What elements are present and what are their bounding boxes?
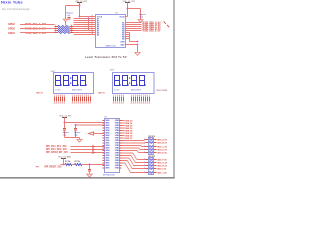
pin U2 right 6 [120, 132, 122, 134]
wire U2 to RN row 5 [122, 150, 138, 152]
svg-text:1 2 3 3: 1 2 3 3 [55, 89, 60, 91]
global label glyph RPI_I2C1_SCL_3V3 [92, 145, 94, 147]
junction rail b [75, 124, 77, 126]
svg-text:7: 7 [92, 25, 93, 27]
pin U2 left 11 [103, 145, 105, 147]
svg-text:2: 2 [92, 15, 93, 17]
power arrow reset [87, 174, 92, 177]
net label U2 right 1 [122, 120, 124, 122]
svg-text:R? 10k: R? 10k [65, 161, 70, 163]
wire U2 to RN row 6 [122, 152, 133, 154]
wire reset left [61, 164, 66, 166]
wire VDD_5V into U1 [126, 16, 128, 18]
power flag arrow VDD_3V3 [63, 19, 67, 22]
wire vertical junction x88 [88, 19, 90, 31]
net marker right 2 [167, 25, 169, 28]
wire U2 to RN row 9 [122, 160, 128, 162]
svg-text:R? 10k: R? 10k [75, 161, 80, 163]
pin U2 right 12 [120, 147, 122, 149]
wire U2 to RN row 10 [122, 162, 125, 164]
wire R2 to U2 [82, 164, 105, 166]
svg-text:6: 6 [92, 23, 93, 25]
svg-text:GND: GND [120, 44, 125, 46]
wire RPI_I2C1_SDA_3V3 [71, 149, 105, 151]
svg-text:SEG_H_5V: SEG_H_5V [157, 165, 167, 167]
wire branch down [65, 6, 67, 19]
wire to gnd arrow [79, 138, 81, 140]
svg-text:Nixie Tube: Nixie Tube [1, 0, 23, 5]
resistor RN1 element 2 [55, 28, 58, 30]
pin U2 left 12 [103, 147, 105, 149]
wire VDD down [64, 118, 66, 123]
wire label row 3 [20, 32, 55, 34]
wire U2 to RN row 3 [122, 145, 141, 147]
pin U2 right 1 [120, 120, 122, 122]
pin U2 left 1 [103, 120, 105, 122]
wire caps join [65, 137, 80, 139]
svg-text:RPI_I2C1_SDA_3V3: RPI_I2C1_SDA_3V3 [46, 148, 67, 151]
wire U1 out 2 [126, 24, 142, 26]
net label U2 right 7 [122, 135, 124, 137]
capacitor C1 plates [68, 17, 71, 19]
pin U2 right 4 [120, 127, 122, 129]
wire U1 out 1 [126, 22, 142, 24]
power flag arrow top right [138, 20, 143, 23]
resistor RN3 element 2 [146, 142, 150, 144]
digit 1 DS2 [115, 76, 120, 86]
pin U2 right 15 [120, 155, 122, 157]
resistor RN1 element 3 [55, 30, 58, 32]
net label U2 right 4 [122, 127, 124, 129]
wire bus horizontal a [130, 41, 138, 43]
wire U2 to RN row 4 [122, 147, 139, 149]
svg-text:9: 9 [92, 29, 93, 31]
resistor RN4 element 3 [146, 165, 150, 167]
svg-text:GPIO2: GPIO2 [8, 23, 15, 26]
pin U2 right 17 [120, 160, 122, 162]
sheet frame right [173, 0, 174, 178]
pin U2 left 7 [103, 135, 105, 137]
wire U2 to RN row 7 [122, 155, 132, 157]
wire input row [94, 133, 105, 135]
pin U2 right 19 [120, 165, 122, 167]
junction node x88 [88, 18, 90, 20]
wire bundle row 4 [74, 22, 96, 24]
svg-text:VDD_5V: VDD_5V [98, 93, 106, 95]
digit 2 DS2 [123, 76, 128, 86]
pin U2 right 10 [120, 142, 122, 144]
resistor RN4 element 5 [146, 172, 150, 174]
display DS1 box [54, 73, 94, 94]
pin U2 left 6 [103, 132, 105, 134]
svg-text:GND: GND [120, 41, 125, 43]
pin U2 left 8 [103, 137, 105, 139]
capacitor C3 [75, 125, 77, 128]
wire U2 to RN row 1 [122, 140, 144, 142]
input arrow glyph [89, 132, 94, 135]
svg-text:VCCB: VCCB [119, 16, 125, 18]
wire U1 out 5 [126, 30, 142, 32]
svg-text:VDD_5V: VDD_5V [36, 93, 44, 95]
sheet frame bottom [0, 177, 175, 178]
wire bundle row 2 [74, 18, 96, 20]
resistor RN3 element 3 [146, 146, 150, 148]
wire bundle row 9 [74, 32, 96, 34]
power flag arrow mid [135, 52, 140, 55]
wire bundle to U1 [80, 16, 96, 18]
net label U2 right 5 [122, 130, 124, 132]
colon DS1 [70, 78, 71, 79]
capacitor C2 [64, 123, 66, 129]
pin U2 left 14 [103, 152, 105, 154]
wire VDD_5V down [127, 3, 129, 17]
wire bundle row 3 [74, 20, 96, 22]
svg-text:RPI_GPIO4_INT_3V3: RPI_GPIO4_INT_3V3 [46, 151, 68, 154]
net marker right 1 [164, 21, 166, 24]
pin U2 right 7 [120, 135, 122, 137]
pin U2 left 18 [103, 162, 105, 164]
svg-text:8: 8 [92, 27, 93, 29]
pin U2 right 8 [120, 137, 122, 139]
resistor RN3 element 4 [146, 149, 150, 151]
svg-text:SEG_A_5V: SEG_A_5V [157, 138, 167, 141]
svg-text:SEG_G_5V: SEG_G_5V [157, 162, 168, 164]
pin U2 right 9 [120, 140, 122, 142]
pin U2 left 9 [103, 140, 105, 142]
svg-text:GPA3: GPA3 [105, 167, 109, 170]
wire RPI_GPIO4_INT_3V3 [71, 152, 105, 154]
colon DS2 [129, 78, 130, 79]
pin U2 right 20 [120, 167, 122, 169]
wire VDD_BBB down [63, 159, 65, 165]
wire label row 1 [20, 24, 55, 26]
junction reset a [63, 164, 65, 166]
wire VDD_3V3 branch left [66, 5, 80, 7]
svg-text:10: 10 [92, 31, 94, 33]
svg-text:RPI_I2C1_SCL_3V3: RPI_I2C1_SCL_3V3 [46, 146, 67, 148]
svg-text:1 2 3 3: 1 2 3 3 [114, 89, 119, 91]
wire U2 to RN row 2 [122, 142, 146, 144]
svg-text:Level Translator 3V3 To 5V: Level Translator 3V3 To 5V [85, 55, 127, 59]
wire U1 out 4 [126, 28, 142, 30]
svg-text:GPIO4: GPIO4 [8, 32, 15, 35]
pin U2 left 3 [103, 125, 105, 127]
digit 1 DS1 [56, 76, 61, 86]
junction rail a [64, 122, 66, 124]
resistor RN1 element 4 [55, 32, 58, 34]
svg-text:CA56-12SRWA: CA56-12SRWA [156, 89, 168, 92]
digit 4 DS1 [81, 76, 86, 86]
wire VDD_3V3 vertical [79, 3, 81, 17]
wire VDD_5V to flag [128, 8, 141, 10]
wire bus horizontal b [126, 44, 138, 46]
svg-text:1: 1 [55, 31, 56, 33]
svg-text:SEG_E_5V: SEG_E_5V [157, 152, 167, 154]
global label glyph RPI_I2C1_SDA_3V3 [92, 148, 94, 150]
pin U2 left 20 [103, 167, 105, 169]
pin U2 left 5 [103, 130, 105, 132]
digit 4 DS2 [140, 76, 145, 86]
svg-text:A B C D E F G: A B C D E F G [72, 88, 82, 91]
svg-text:TUBE_D7: TUBE_D7 [124, 138, 133, 140]
net label U2 right 2 [122, 122, 124, 124]
digit 3 DS1 [73, 76, 78, 86]
pin U2 right 13 [120, 150, 122, 152]
capacitor C4 [89, 165, 91, 170]
wire U1 out 3 [126, 26, 142, 28]
display DS2 box [113, 73, 155, 94]
svg-text:8: 8 [71, 31, 72, 33]
junction VDD_3V3 a [79, 5, 81, 7]
pin U2 left 16 [103, 157, 105, 159]
resistor RN3 element 5 [146, 152, 150, 154]
wire RPI_I2C1_SCL_3V3 [71, 146, 105, 148]
svg-text:SEG_C_5V: SEG_C_5V [157, 146, 167, 148]
junction bus b [137, 44, 139, 46]
net label U2 right 6 [122, 132, 124, 134]
op IC U1 level translator [96, 15, 126, 48]
wire U1 lower stubs [126, 32, 130, 34]
svg-text:SEG_D_5V: SEG_D_5V [157, 149, 167, 151]
pin U2 left 13 [103, 150, 105, 152]
digit 3 DS2 [132, 76, 137, 86]
wire bundle row 6 [74, 26, 96, 28]
junction VDD_5V [127, 8, 129, 10]
wire rail2 to U2 [76, 124, 105, 126]
junction VDD_3V3 b [79, 16, 81, 18]
wire bus vertical [129, 33, 131, 42]
global label glyph RPI_GPIO4_INT_3V3 [92, 151, 94, 153]
svg-text:TUBE_SEG_E_5V: TUBE_SEG_E_5V [142, 29, 161, 32]
wire bundle row 7 [74, 28, 96, 30]
wire rail to U2 [65, 122, 105, 124]
pin U2 right 2 [120, 122, 122, 124]
pin U2 left 10 [103, 142, 105, 144]
svg-text:74AHCT245: 74AHCT245 [105, 44, 116, 47]
pin U2 right 16 [120, 157, 122, 159]
wire R1 to R2 [72, 164, 75, 166]
svg-text:GPB3: GPB3 [115, 168, 119, 170]
svg-text:SEG_J_5V: SEG_J_5V [157, 172, 167, 174]
resistor RN1 element 1 [55, 26, 58, 28]
resistor RN4 element 2 [146, 162, 150, 164]
svg-text:SEG_I_5V: SEG_I_5V [157, 168, 166, 170]
pin U2 left 4 [103, 127, 105, 129]
pin U2 right 5 [120, 130, 122, 132]
pin U2 left 15 [103, 155, 105, 157]
svg-text:5: 5 [92, 21, 93, 23]
resistor RN4 element 4 [146, 168, 150, 170]
wire bundle row 5 [74, 24, 96, 26]
pin U2 left 19 [103, 165, 105, 167]
op IC U2 io expander [105, 119, 120, 173]
resistor RN3 element 1 [146, 139, 150, 141]
wire to power arrow [137, 45, 139, 53]
wire RN1 common [65, 22, 67, 26]
wire bundle row 10 [74, 34, 96, 36]
svg-text:3: 3 [92, 17, 93, 19]
wire U2 to RN row 8 [122, 157, 130, 159]
pin U2 right 3 [120, 125, 122, 127]
svg-text:Rev 1.0 Preliminary Design: Rev 1.0 Preliminary Design [2, 8, 31, 11]
pin U2 left 2 [103, 122, 105, 124]
pin U2 right 14 [120, 152, 122, 154]
wire bundle row 8 [74, 30, 96, 32]
svg-text:SEG_F_5V: SEG_F_5V [157, 159, 167, 161]
pin U2 right 11 [120, 145, 122, 147]
svg-text:RPI_RESET_3V3: RPI_RESET_3V3 [45, 167, 63, 169]
svg-text:MCP23017-SO: MCP23017-SO [103, 174, 116, 176]
svg-text:SEG_B_5V: SEG_B_5V [157, 142, 167, 144]
pin U2 right 18 [120, 162, 122, 164]
junction bus a [137, 41, 139, 43]
junction reset b [89, 164, 91, 166]
pin U2 left 17 [103, 160, 105, 162]
wire label row 2 [20, 28, 55, 30]
digit 2 DS1 [64, 76, 69, 86]
svg-text:A B C D E F G: A B C D E F G [131, 88, 141, 91]
power arrow caps [77, 139, 82, 142]
svg-text:11: 11 [92, 33, 94, 35]
resistor RN4 element 1 [146, 159, 150, 161]
net label U2 right 3 [122, 125, 124, 127]
net label U2 right 8 [122, 137, 124, 139]
svg-text:GPIO3: GPIO3 [8, 28, 15, 31]
